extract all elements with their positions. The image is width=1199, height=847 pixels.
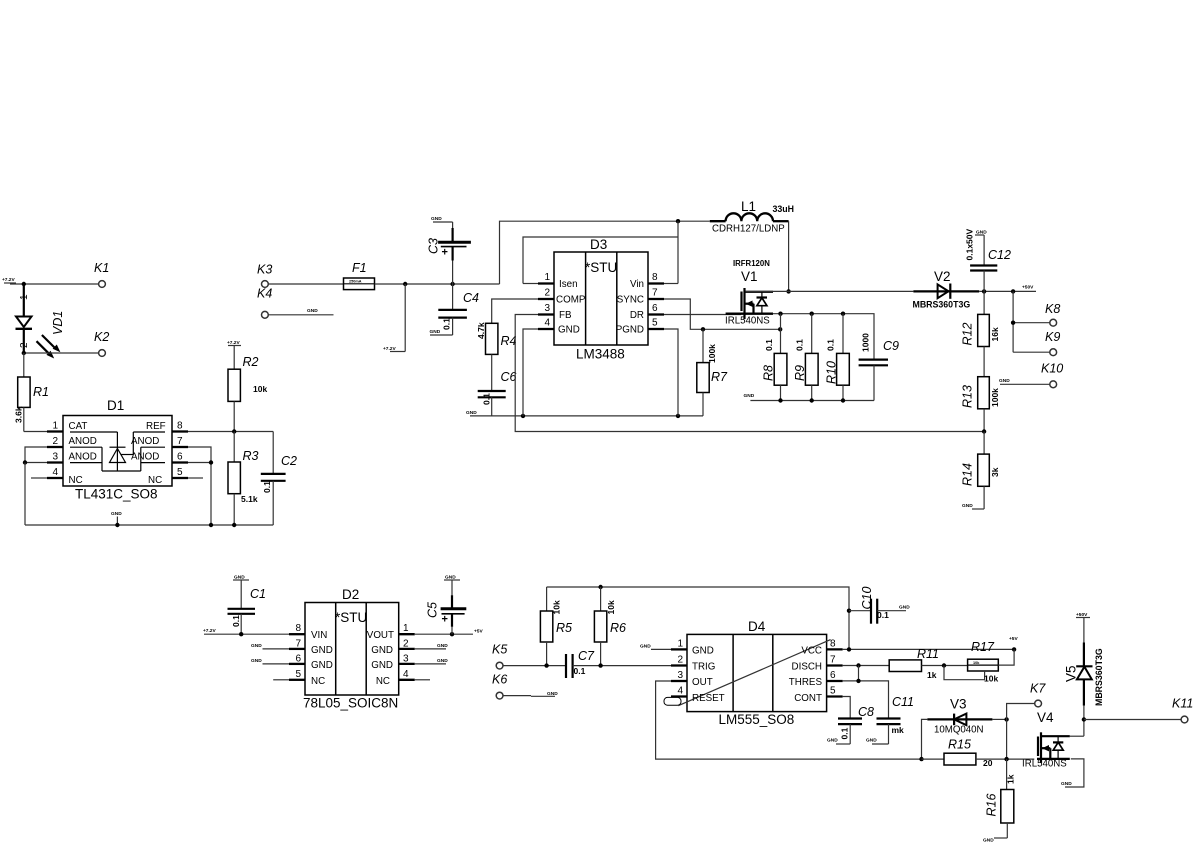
wire input to top rail xyxy=(500,221,710,284)
svg-text:0.1: 0.1 xyxy=(764,339,774,351)
svg-text:2: 2 xyxy=(19,342,30,348)
svg-text:10k: 10k xyxy=(973,661,980,665)
svg-text:C11: C11 xyxy=(892,695,914,709)
svg-text:GND: GND xyxy=(251,658,262,664)
svg-text:GND: GND xyxy=(866,738,877,744)
node R6 top xyxy=(598,585,602,589)
svg-text:TRIG: TRIG xyxy=(692,662,715,673)
svg-text:1: 1 xyxy=(403,623,409,634)
svg-text:GND: GND xyxy=(962,503,973,509)
wire D2 pin5 stub xyxy=(273,679,289,681)
svg-text:VCC: VCC xyxy=(801,646,822,657)
svg-text:ANOD: ANOD xyxy=(131,452,159,463)
svg-text:R13: R13 xyxy=(960,385,974,408)
svg-text:V3: V3 xyxy=(950,697,967,712)
node rail frame left xyxy=(521,414,525,418)
svg-text:+: + xyxy=(442,247,448,259)
wire D2 pin7 GND xyxy=(251,643,289,649)
svg-text:DISCH: DISCH xyxy=(792,662,822,673)
wire D4 pin1 GND xyxy=(640,644,671,650)
svg-text:ANOD: ANOD xyxy=(69,452,97,463)
node C10 tap xyxy=(847,609,851,613)
node R5 bottom xyxy=(544,663,548,667)
svg-text:R11: R11 xyxy=(917,647,939,661)
wire V2 output xyxy=(979,290,1036,292)
svg-text:GND: GND xyxy=(311,660,333,671)
wire Vin frame xyxy=(523,221,678,283)
svg-text:GND: GND xyxy=(899,604,910,610)
svg-text:7: 7 xyxy=(830,655,836,666)
node rail frame right xyxy=(676,414,680,418)
svg-text:C3: C3 xyxy=(427,238,441,254)
wire DISCH-THRES link xyxy=(858,666,860,681)
svg-text:R7: R7 xyxy=(711,370,728,384)
svg-text:1: 1 xyxy=(52,421,58,432)
resistor R7 xyxy=(697,329,728,416)
svg-text:GND: GND xyxy=(430,329,441,335)
svg-text:COMP: COMP xyxy=(556,295,586,306)
svg-text:C6: C6 xyxy=(501,370,517,384)
resistor R8 xyxy=(762,314,787,401)
diode V5 xyxy=(1063,612,1104,736)
svg-text:K11: K11 xyxy=(1172,697,1193,711)
svg-text:GND: GND xyxy=(371,645,393,656)
ground rail D3 xyxy=(466,410,703,416)
svg-text:C1: C1 xyxy=(250,587,266,601)
svg-text:1k: 1k xyxy=(927,670,937,680)
wire +7.2V to D2 VIN xyxy=(204,633,289,635)
svg-text:3k: 3k xyxy=(990,467,1000,477)
power label +7.2V at R2 xyxy=(227,340,241,346)
svg-text:16k: 16k xyxy=(990,327,1000,341)
svg-text:C7: C7 xyxy=(578,649,595,663)
wire D1 pin3 xyxy=(25,462,47,464)
svg-text:5: 5 xyxy=(830,686,836,697)
svg-text:3.6k: 3.6k xyxy=(14,406,24,423)
svg-text:6: 6 xyxy=(652,303,658,314)
svg-text:GND: GND xyxy=(371,660,393,671)
svg-text:IRL540NS: IRL540NS xyxy=(725,316,770,327)
resistor R9 xyxy=(793,314,818,401)
svg-text:7: 7 xyxy=(652,288,658,299)
svg-text:C4: C4 xyxy=(463,291,479,305)
node V3/K7 xyxy=(1004,717,1008,721)
wire D1 pin8 REF xyxy=(188,431,273,433)
svg-text:K2: K2 xyxy=(94,330,109,344)
svg-text:K1: K1 xyxy=(94,261,109,275)
svg-text:FB: FB xyxy=(559,310,572,321)
wire source to sense resistors xyxy=(773,314,874,360)
svg-text:0.1: 0.1 xyxy=(840,727,850,739)
svg-text:1k: 1k xyxy=(1006,774,1016,784)
resistor R6 xyxy=(594,587,626,666)
svg-text:GND: GND xyxy=(827,738,838,744)
svg-text:GND: GND xyxy=(466,410,477,416)
svg-text:GND: GND xyxy=(437,643,448,649)
capacitor C7 xyxy=(566,649,595,678)
fuse F1 xyxy=(344,261,375,290)
svg-text:K7: K7 xyxy=(1030,682,1046,696)
node pin2/3 xyxy=(23,460,27,464)
svg-text:6: 6 xyxy=(830,670,836,681)
svg-text:250mA: 250mA xyxy=(349,280,362,284)
svg-text:+7.2V: +7.2V xyxy=(383,346,396,352)
svg-text:R2: R2 xyxy=(243,355,259,369)
svg-text:K4: K4 xyxy=(257,287,272,301)
svg-text:C8: C8 xyxy=(858,705,874,719)
svg-text:THRES: THRES xyxy=(789,677,823,688)
svg-text:REF: REF xyxy=(146,421,166,432)
wire R5/R6 top rail to VCC xyxy=(547,587,849,649)
svg-text:K6: K6 xyxy=(492,673,507,687)
svg-text:4: 4 xyxy=(403,669,409,680)
wire OUT down to rail xyxy=(656,681,922,759)
svg-text:GND: GND xyxy=(307,308,318,314)
svg-text:3: 3 xyxy=(677,670,683,681)
wire D1 pin6 xyxy=(188,462,211,464)
svg-text:K5: K5 xyxy=(492,643,507,657)
svg-text:NC: NC xyxy=(376,676,390,687)
wire C7 to TRIG xyxy=(573,665,671,667)
svg-text:D4: D4 xyxy=(748,619,766,634)
svg-text:CDRH127/LDNP: CDRH127/LDNP xyxy=(712,224,785,235)
svg-text:0.1: 0.1 xyxy=(482,393,492,405)
IC D4 LM555 xyxy=(664,619,843,727)
svg-text:10k: 10k xyxy=(984,674,998,684)
node R9 top xyxy=(810,312,814,316)
svg-text:0.1: 0.1 xyxy=(795,339,805,351)
wire K11 xyxy=(1084,719,1181,721)
resistor R1 xyxy=(14,353,49,432)
svg-text:K10: K10 xyxy=(1041,362,1063,376)
ground rail TL431 block xyxy=(25,524,273,526)
svg-text:78L05_SOIC8N: 78L05_SOIC8N xyxy=(303,696,398,711)
svg-text:R4: R4 xyxy=(501,334,517,348)
svg-text:PGND: PGND xyxy=(616,325,644,336)
svg-text:0.1x50V: 0.1x50V xyxy=(965,229,975,261)
inductor L1 xyxy=(710,199,794,235)
ground R14 xyxy=(962,503,984,509)
wire GND pin4 xyxy=(523,329,538,416)
wire V3 left leg xyxy=(922,719,928,759)
svg-text:0.1: 0.1 xyxy=(877,610,889,620)
svg-text:R8: R8 xyxy=(762,365,776,381)
svg-text:V4: V4 xyxy=(1037,710,1054,725)
svg-text:5: 5 xyxy=(177,467,183,478)
svg-text:CONT: CONT xyxy=(794,693,822,704)
svg-text:NC: NC xyxy=(311,676,325,687)
svg-text:Vin: Vin xyxy=(630,279,644,290)
svg-text:V2: V2 xyxy=(934,269,951,284)
svg-text:R9: R9 xyxy=(793,365,807,381)
power label +7.2V left xyxy=(2,277,16,283)
svg-text:5: 5 xyxy=(652,318,658,329)
wire SYNC to sense xyxy=(664,299,780,329)
svg-text:R1: R1 xyxy=(33,385,49,399)
svg-text:R5: R5 xyxy=(556,621,572,635)
svg-text:0.1: 0.1 xyxy=(826,339,836,351)
wire DR to V1 gate xyxy=(664,314,741,316)
capacitor C1 xyxy=(228,575,266,635)
node R6 bottom xyxy=(598,663,602,667)
svg-text:GND: GND xyxy=(692,646,714,657)
capacitor C3 polarized xyxy=(427,216,471,284)
svg-text:5.1k: 5.1k xyxy=(241,494,258,504)
svg-text:ANOD: ANOD xyxy=(69,436,97,447)
resistor R13 xyxy=(960,377,1000,432)
wire THRES to C11 xyxy=(843,681,889,719)
wire D1 pin4 stub xyxy=(31,477,47,479)
transistor V4 xyxy=(1022,710,1084,770)
svg-text:R12: R12 xyxy=(960,323,974,346)
svg-text:R15: R15 xyxy=(948,738,971,752)
svg-text:CAT: CAT xyxy=(69,421,88,432)
node DISCH xyxy=(856,663,860,667)
svg-text:LM3488: LM3488 xyxy=(576,346,625,361)
wire PGND pin5 xyxy=(664,329,678,416)
svg-text:0.1: 0.1 xyxy=(442,318,452,330)
svg-text:5: 5 xyxy=(295,669,301,680)
svg-text:20: 20 xyxy=(983,758,993,768)
svg-text:L1: L1 xyxy=(741,199,756,214)
connector K4 xyxy=(257,287,272,319)
diode V3 xyxy=(927,697,992,736)
node THRES xyxy=(856,679,860,683)
wire V1 drain to V2 xyxy=(746,290,914,292)
node K8 xyxy=(1011,321,1015,325)
node rail pin7 xyxy=(209,523,213,527)
node C5 tap xyxy=(450,632,454,636)
svg-text:V5: V5 xyxy=(1063,665,1078,682)
svg-text:1: 1 xyxy=(677,639,683,650)
svg-text:+50V: +50V xyxy=(1022,285,1034,291)
resistor R14 xyxy=(960,432,1000,510)
svg-text:F1: F1 xyxy=(352,261,367,275)
svg-text:GND: GND xyxy=(437,658,448,664)
node V1 drain xyxy=(786,289,790,293)
svg-text:2: 2 xyxy=(52,436,58,447)
svg-text:OUT: OUT xyxy=(692,677,713,688)
svg-text:4.7k: 4.7k xyxy=(476,322,486,339)
connector K6 xyxy=(492,673,558,699)
svg-text:SYNC: SYNC xyxy=(617,295,644,306)
wire pin3 to ground rail xyxy=(24,463,26,526)
svg-text:R3: R3 xyxy=(243,449,259,463)
svg-text:+7.2V: +7.2V xyxy=(203,628,216,634)
wire D2 pin6 GND xyxy=(251,658,289,664)
node +7.2V junction xyxy=(22,282,26,286)
svg-text:+7.2V: +7.2V xyxy=(2,277,15,283)
svg-text:VD1: VD1 xyxy=(51,311,65,335)
svg-text:33uH: 33uH xyxy=(773,204,795,214)
node Vin tap xyxy=(676,219,680,223)
wire D1 pin1 xyxy=(24,431,47,433)
node R10 top xyxy=(841,312,845,316)
ground GND TL431 block xyxy=(111,511,122,527)
svg-text:ANOD: ANOD xyxy=(131,436,159,447)
svg-text:R6: R6 xyxy=(610,621,626,635)
resistor R16 xyxy=(983,759,1016,843)
node V3/OUT rail xyxy=(919,757,923,761)
diode V2 xyxy=(913,269,980,310)
wire K4 to GND xyxy=(268,308,333,315)
resistor R5 xyxy=(540,587,572,666)
svg-text:3: 3 xyxy=(544,303,550,314)
wire D2 pin3 GND xyxy=(415,658,448,664)
svg-text:GND: GND xyxy=(558,325,580,336)
resistor R15 xyxy=(922,738,1035,769)
wire F1 to C4 junction xyxy=(375,283,500,285)
svg-text:+5V: +5V xyxy=(1009,636,1018,642)
node R7 top xyxy=(701,327,705,331)
resistor R3 xyxy=(228,432,259,526)
wire D1 pin2 xyxy=(25,447,47,463)
resistor R12 xyxy=(960,291,1000,376)
wire K7 branch xyxy=(1007,704,1035,760)
svg-text:C2: C2 xyxy=(281,454,297,468)
svg-text:IRFR120N: IRFR120N xyxy=(733,259,770,268)
svg-text:C9: C9 xyxy=(883,339,899,353)
capacitor C12 xyxy=(965,229,1011,292)
node +5V corner xyxy=(1012,647,1016,651)
svg-text:10MQ040N: 10MQ040N xyxy=(934,725,984,736)
svg-text:8: 8 xyxy=(652,272,658,283)
wire Vin pin8 xyxy=(664,283,678,285)
svg-text:NC: NC xyxy=(148,475,162,486)
wire V3 right to K7 node xyxy=(992,718,1006,720)
svg-text:C10: C10 xyxy=(860,587,874,610)
svg-text:K9: K9 xyxy=(1045,330,1060,344)
svg-text:100k: 100k xyxy=(990,388,1000,407)
svg-text:GND: GND xyxy=(999,378,1010,384)
svg-text:GND: GND xyxy=(640,644,651,650)
wire Isen pin1 xyxy=(523,283,538,285)
svg-text:R14: R14 xyxy=(960,463,974,486)
wire VCC +5V rail xyxy=(843,648,1015,650)
svg-text:V1: V1 xyxy=(741,269,758,284)
svg-text:MBRS360T3G: MBRS360T3G xyxy=(1094,648,1104,706)
resistor R2 xyxy=(228,346,267,432)
node C3/C4 xyxy=(450,282,454,286)
node R2/R3/REF xyxy=(232,429,236,433)
svg-text:*STU: *STU xyxy=(335,610,367,625)
svg-text:*STU: *STU xyxy=(585,260,617,275)
wire K1 xyxy=(10,283,99,285)
wire K8/K9 branch xyxy=(1013,291,1050,352)
resistor R4 xyxy=(476,322,517,391)
svg-text:mk: mk xyxy=(892,725,905,735)
wire V4 source to GND xyxy=(1061,759,1084,787)
svg-text:NC: NC xyxy=(69,475,83,486)
node rail R3 xyxy=(232,523,236,527)
svg-text:D2: D2 xyxy=(342,587,359,602)
svg-text:GND: GND xyxy=(744,393,755,399)
svg-text:GND: GND xyxy=(431,216,442,222)
wire K2 xyxy=(24,352,99,354)
svg-text:4: 4 xyxy=(52,467,58,478)
svg-text:1: 1 xyxy=(544,272,550,283)
capacitor C6 xyxy=(478,370,517,416)
svg-text:Isen: Isen xyxy=(559,279,578,290)
trimmer R17 xyxy=(944,640,998,684)
IC D2 78L05 xyxy=(289,587,415,711)
connector K10 xyxy=(999,362,1063,388)
svg-text:D3: D3 xyxy=(590,237,607,252)
svg-text:D1: D1 xyxy=(107,398,124,413)
wire D2 pin4 stub xyxy=(415,679,430,681)
svg-text:6: 6 xyxy=(177,452,183,463)
capacitor C11 xyxy=(866,695,914,744)
svg-text:10k: 10k xyxy=(253,384,267,394)
svg-text:100k: 100k xyxy=(707,344,717,363)
node +7.2V branch xyxy=(403,282,407,286)
svg-text:4: 4 xyxy=(677,686,683,697)
connector K11 xyxy=(1172,697,1193,723)
node VD1/R1 xyxy=(22,351,26,355)
sense ground rail xyxy=(744,393,875,401)
connector K5 xyxy=(492,643,507,669)
svg-text:DR: DR xyxy=(630,310,644,321)
svg-text:GND: GND xyxy=(547,691,558,697)
node C1 tap xyxy=(239,632,243,636)
svg-text:10k: 10k xyxy=(552,600,562,614)
wire DISCH to R11 xyxy=(843,665,890,667)
svg-text:+: + xyxy=(442,614,448,626)
svg-text:8: 8 xyxy=(295,623,301,634)
node R8 top xyxy=(778,312,782,316)
connector K7 xyxy=(1030,682,1046,707)
connector K9 xyxy=(1045,330,1060,356)
svg-text:0.1: 0.1 xyxy=(262,481,272,493)
svg-text:2: 2 xyxy=(544,288,550,299)
svg-text:8: 8 xyxy=(830,639,836,650)
wire R17 to +5V xyxy=(998,649,1014,665)
wire VOUT +5V xyxy=(415,629,484,635)
capacitor C10 xyxy=(849,587,910,624)
svg-text:R17: R17 xyxy=(971,640,995,654)
svg-text:IRL540NS: IRL540NS xyxy=(1022,759,1067,770)
node FB divider xyxy=(982,429,986,433)
svg-text:RESET: RESET xyxy=(692,693,725,704)
svg-text:4: 4 xyxy=(544,318,550,329)
transistor V1 xyxy=(725,259,773,327)
svg-text:GND: GND xyxy=(111,511,122,517)
wire K3 to F1 xyxy=(268,283,343,285)
capacitor C5 polarized xyxy=(426,575,467,635)
IC D3 LM3488 xyxy=(538,237,664,361)
node C12 tap xyxy=(982,289,986,293)
node K8 branch xyxy=(1011,289,1015,293)
node K11 xyxy=(1082,717,1086,721)
power flag +7.2V mid xyxy=(383,284,405,352)
svg-text:0.1: 0.1 xyxy=(574,666,586,676)
svg-text:GND: GND xyxy=(983,838,994,844)
wire D2 pin2 GND xyxy=(415,643,448,649)
svg-text:VIN: VIN xyxy=(311,630,327,641)
node R10 bottom xyxy=(841,398,845,402)
IC D1 TL431C_SO8 xyxy=(47,398,188,502)
svg-text:C12: C12 xyxy=(988,248,1011,262)
node R16 top xyxy=(1004,757,1008,761)
wire COMP to R4 xyxy=(492,299,538,323)
capacitor C2 xyxy=(261,432,297,526)
resistor R11 xyxy=(889,647,967,680)
svg-text:K8: K8 xyxy=(1045,302,1060,316)
svg-text:3: 3 xyxy=(52,452,58,463)
node pin6/7 xyxy=(209,460,213,464)
node R11/R17 xyxy=(942,663,946,667)
svg-text:7: 7 xyxy=(177,436,183,447)
